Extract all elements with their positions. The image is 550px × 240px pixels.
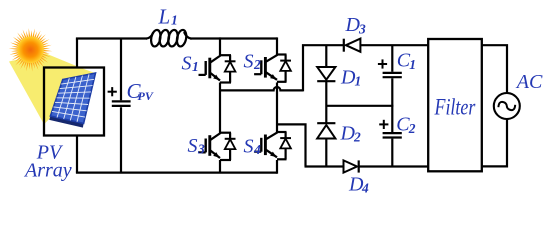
capacitor C2 xyxy=(383,133,402,166)
transistor S1 (IGBT with antiparallel diode) xyxy=(199,55,236,82)
wire clamp midpoint to capacitor midpoint xyxy=(326,106,392,132)
label D4 xyxy=(348,174,369,196)
AC source xyxy=(494,93,520,119)
svg-text:4: 4 xyxy=(361,180,369,195)
label AC xyxy=(515,71,543,93)
filter block xyxy=(428,39,482,171)
wire S1 collector drop xyxy=(219,37,221,55)
svg-text:1: 1 xyxy=(192,59,199,74)
wire D1 cathode to D2 cathode xyxy=(325,81,327,123)
svg-text:1: 1 xyxy=(171,13,178,28)
transistor S2 (IGBT with antiparallel diode) xyxy=(254,55,291,82)
wire bottom rail (PV- to bridge) xyxy=(76,172,277,174)
PV array box xyxy=(44,68,104,136)
svg-text:3: 3 xyxy=(358,22,366,37)
svg-text:S: S xyxy=(182,53,192,75)
diode D4 (points right) xyxy=(344,160,359,172)
svg-text:3: 3 xyxy=(197,142,205,157)
wire S3 emitter to bottom rail xyxy=(219,160,221,173)
label S1 xyxy=(182,53,199,75)
label D2 xyxy=(340,123,362,145)
label L1 xyxy=(158,5,178,29)
svg-text:S: S xyxy=(244,51,254,73)
node A wire (left output up to D3/D1 line) xyxy=(303,45,343,91)
sun xyxy=(9,28,53,71)
wire S4 emitter to bottom rail xyxy=(276,160,278,174)
svg-text:2: 2 xyxy=(353,130,361,145)
transistor S3 (IGBT with antiparallel diode) xyxy=(199,133,236,160)
wire left leg midpoint (S1 emitter to S3 collector) xyxy=(219,83,221,133)
svg-text:L: L xyxy=(158,5,171,29)
wire top node line D3 anode side to filter xyxy=(361,44,429,46)
capacitor C1 xyxy=(383,45,402,107)
plus sign C1 polarity xyxy=(378,59,387,68)
capacitor CPV xyxy=(112,39,131,173)
svg-text:1: 1 xyxy=(409,57,416,72)
wire bottom node line to D4 xyxy=(305,165,344,167)
svg-text:4: 4 xyxy=(253,142,261,157)
label PV xyxy=(36,142,64,164)
label S4 xyxy=(244,136,262,158)
wire D4 cathode to filter xyxy=(359,165,429,167)
wire filter to AC bottom xyxy=(482,119,507,166)
wire top rail left (PV+ to inductor) xyxy=(76,37,147,39)
svg-text:PV: PV xyxy=(138,89,154,103)
label D1 xyxy=(340,66,361,88)
label D3 xyxy=(345,14,367,37)
svg-text:1: 1 xyxy=(355,73,362,88)
label S2 xyxy=(244,51,262,73)
diode D1 (points down) xyxy=(317,67,335,81)
label Filter text xyxy=(434,96,477,121)
svg-text:AC: AC xyxy=(515,71,543,93)
svg-text:2: 2 xyxy=(408,121,416,136)
label CPV xyxy=(127,79,154,103)
plus sign CPV polarity xyxy=(108,87,117,96)
wire left vertical (PV to rails) xyxy=(76,39,78,173)
wire right leg midpoint (S2 emitter to S4 collector) xyxy=(276,83,278,133)
wire D2 anode to bottom node xyxy=(325,139,327,168)
solar panel xyxy=(49,116,83,128)
plus sign C2 polarity xyxy=(379,120,388,129)
wire D1 branch from top node xyxy=(325,45,327,67)
inductor L1 xyxy=(146,29,277,47)
svg-text:Array: Array xyxy=(23,160,72,182)
label Array xyxy=(23,160,72,182)
label C2 xyxy=(396,114,416,137)
svg-text:Filter: Filter xyxy=(434,96,477,121)
diode D2 (points up) xyxy=(317,123,335,138)
diode D3 (points left) xyxy=(344,39,361,52)
wire filter to AC top xyxy=(482,45,507,93)
label C1 xyxy=(397,50,416,73)
wire left leg output with crossover hop xyxy=(220,87,303,90)
svg-text:S: S xyxy=(244,136,254,158)
label S3 xyxy=(188,135,206,157)
svg-text:2: 2 xyxy=(253,57,261,72)
sun light beam xyxy=(9,54,96,125)
transistor S4 (IGBT with antiparallel diode) xyxy=(254,132,291,159)
svg-text:S: S xyxy=(188,135,198,157)
wire right leg output xyxy=(277,124,306,166)
wire S2 collector drop xyxy=(276,37,278,55)
